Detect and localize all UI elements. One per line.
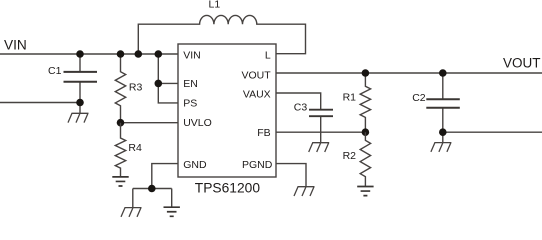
ground earth bottom-center [164,207,180,216]
node junction R1 top [362,69,370,77]
inductor L1 [138,0,305,54]
svg-text:PGND: PGND [242,159,273,171]
wire FB net [276,131,365,133]
svg-text:UVLO: UVLO [183,117,212,129]
node junction C1 top [76,50,84,58]
wire lower-right ground rail [443,132,542,142]
svg-text:FB: FB [257,127,270,139]
svg-text:C3: C3 [294,102,308,114]
wire EN/PS branch [158,54,178,103]
svg-text:VOUT: VOUT [242,70,272,82]
svg-text:VOUT: VOUT [503,56,541,71]
svg-text:VIN: VIN [183,50,201,62]
wire lower-left ground rail [0,102,80,104]
capacitor C3 [276,93,333,143]
svg-text:R2: R2 [343,150,357,162]
node junction C2 top [439,69,447,77]
wire GND net [133,164,178,208]
svg-text:GND: GND [183,159,207,171]
svg-text:L1: L1 [209,0,221,11]
resistor R1 [343,73,371,132]
svg-text:C2: C2 [412,92,426,104]
ground chassis below C2 [431,143,452,152]
ground chassis bottom-left [121,208,142,217]
node junction R3 top [117,50,125,58]
node junction L1 tap [135,50,143,58]
IC U1 TPS61200 [178,44,276,196]
node junction C1 bottom [76,99,84,107]
capacitor C2 [412,73,460,132]
node junction C2 bottom [439,128,447,136]
ground chassis below PGND [294,187,315,196]
svg-text:C1: C1 [48,65,62,77]
svg-text:VIN: VIN [4,38,27,53]
node junction FB (R1/R2) [362,128,370,136]
ground earth below R2 [357,187,373,196]
svg-text:R1: R1 [343,92,357,104]
node junction EN [155,80,163,88]
svg-text:TPS61200: TPS61200 [195,181,261,196]
resistor R4 [115,123,142,177]
wire VIN rail [0,53,178,55]
resistor R3 [115,54,142,123]
ground earth below R4 [112,177,128,186]
svg-text:PS: PS [183,97,197,109]
svg-text:R4: R4 [128,142,142,154]
wire PGND net [276,164,306,187]
svg-text:R3: R3 [129,81,143,93]
svg-text:EN: EN [183,78,198,90]
node junction GND [148,185,156,193]
wire VOUT rail [276,72,542,74]
wire UVLO net [121,122,179,124]
node junction R3/R4/UVLO [117,119,125,127]
svg-text:L: L [265,50,271,62]
ground chassis below C3 [309,143,330,152]
capacitor C1 [48,54,97,113]
ground chassis below C1 [68,113,89,122]
svg-text:VAUX: VAUX [243,88,271,100]
node junction EN/PS tap [155,50,163,58]
resistor R2 [343,132,371,186]
